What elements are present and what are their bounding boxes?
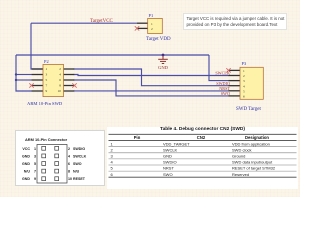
connector P3 left pin stubs: [229, 70, 241, 96]
svg-text:GND: GND: [158, 65, 169, 70]
svg-text:Designation: Designation: [245, 135, 269, 140]
svg-text:VCC: VCC: [22, 147, 30, 151]
svg-text:Ground: Ground: [232, 154, 245, 159]
svg-text:RESET of target STM32: RESET of target STM32: [232, 166, 276, 171]
svg-text:10: 10: [68, 177, 72, 181]
svg-text:Reserved: Reserved: [232, 172, 249, 177]
wire SWO from P2 pin6 to P3 pin6: [74, 80, 230, 96]
wire GND left vertical: [16, 55, 32, 91]
svg-text:4: 4: [111, 160, 114, 165]
svg-text:Target VDD: Target VDD: [146, 37, 171, 42]
svg-text:9: 9: [46, 89, 48, 93]
P3 pin numbers: [243, 69, 245, 99]
svg-text:NRST: NRST: [163, 166, 174, 171]
CN2 column values: [163, 141, 190, 177]
svg-text:N/U: N/U: [73, 170, 80, 174]
left pin labels: [22, 147, 36, 181]
svg-text:SWD Target: SWD Target: [236, 107, 261, 112]
svg-text:2: 2: [59, 67, 61, 71]
background grid: [0, 0, 300, 197]
svg-text:Pin: Pin: [134, 135, 141, 140]
svg-text:2: 2: [151, 27, 153, 31]
connector P2 body: [43, 64, 64, 96]
svg-text:1: 1: [151, 22, 153, 26]
svg-text:SWO: SWO: [163, 172, 173, 177]
svg-text:2: 2: [243, 74, 245, 78]
note text box: [183, 13, 287, 30]
svg-text:8: 8: [68, 170, 70, 174]
svg-text:1: 1: [111, 141, 114, 146]
svg-text:6: 6: [243, 95, 245, 99]
wire GND branch to P2 pin5: [16, 79, 32, 81]
svg-text:8: 8: [59, 84, 61, 88]
designation column values: [232, 141, 276, 177]
svg-text:P1: P1: [149, 13, 154, 18]
no-connect X on P2 pin7: [29, 83, 33, 87]
svg-text:GND: GND: [22, 154, 30, 158]
wire GND horizontal: [16, 54, 209, 56]
P2 pin numbers right column: [58, 67, 62, 93]
svg-text:N/U: N/U: [24, 170, 31, 174]
svg-text:P2: P2: [44, 59, 49, 64]
svg-text:VDD from application: VDD from application: [232, 141, 270, 146]
svg-text:SWCLK: SWCLK: [215, 71, 230, 76]
svg-text:SWDIO: SWDIO: [163, 160, 177, 165]
svg-text:10: 10: [58, 89, 62, 93]
svg-text:3: 3: [243, 79, 245, 83]
wire SWDIO from P2 pin2 to P3 pin4: [74, 69, 230, 86]
svg-text:4: 4: [243, 84, 245, 88]
table rules: [109, 134, 297, 177]
svg-text:3: 3: [111, 154, 114, 159]
no-connect X on P2 pin8: [72, 83, 76, 87]
junction at GND branch pin3: [15, 73, 17, 75]
right pin labels: [68, 147, 87, 181]
svg-text:SWO: SWO: [73, 162, 82, 166]
connector P2 left pin stubs: [32, 69, 43, 91]
connector outline: [37, 145, 67, 184]
svg-text:5: 5: [243, 89, 245, 93]
wire GND branch to P2 pin3: [16, 74, 32, 76]
svg-text:9: 9: [34, 177, 36, 181]
svg-text:CN2: CN2: [197, 135, 206, 140]
connector P3 body: [240, 67, 263, 99]
svg-text:7: 7: [34, 170, 36, 174]
pin squares right column: [55, 146, 59, 180]
svg-text:P3: P3: [242, 61, 247, 66]
wire NRST from P2 pin10 to P3 pin5: [74, 90, 230, 92]
svg-text:5: 5: [34, 162, 36, 166]
svg-text:1: 1: [34, 147, 36, 151]
svg-text:GND: GND: [22, 177, 30, 181]
connector P1 pin stubs: [137, 23, 148, 28]
svg-text:5: 5: [46, 78, 48, 82]
svg-text:SWD data input/output: SWD data input/output: [232, 160, 273, 165]
svg-text:6: 6: [59, 78, 61, 82]
svg-text:3: 3: [34, 154, 36, 158]
svg-text:5: 5: [111, 166, 114, 171]
schematic drawing: [0, 0, 300, 197]
wire GND right vertical to P3 pin3: [209, 55, 229, 81]
junction at GND branch pin5: [15, 79, 17, 81]
svg-text:SWCLK: SWCLK: [73, 154, 87, 158]
wire SWCLK from P2 pin4 to P3 pin2: [74, 75, 230, 76]
connector P1 body: [148, 18, 163, 33]
svg-text:7: 7: [46, 84, 48, 88]
pin squares left column: [42, 146, 46, 180]
svg-text:ARM 10-Pin SWD: ARM 10-Pin SWD: [27, 101, 63, 106]
svg-text:RESET: RESET: [73, 177, 86, 181]
svg-text:SWD clock: SWD clock: [232, 147, 252, 152]
svg-text:VDD_TARGET: VDD_TARGET: [163, 141, 190, 146]
svg-text:1: 1: [243, 69, 245, 73]
ARM 10-pin connector card: [15, 130, 105, 186]
svg-text:SWO: SWO: [221, 91, 230, 96]
svg-text:SWCLK: SWCLK: [163, 147, 178, 152]
pin column values: [111, 141, 114, 177]
svg-text:SWDIO: SWDIO: [73, 147, 85, 151]
svg-text:6: 6: [111, 172, 114, 177]
wire TargetVCC vertical to P2 pin1: [31, 23, 43, 69]
card title: [25, 137, 67, 142]
svg-text:2: 2: [111, 147, 114, 152]
svg-text:4: 4: [68, 154, 70, 158]
svg-text:2: 2: [68, 147, 70, 151]
junction at GND symbol: [162, 54, 165, 57]
no-connect X on P1 pin2: [135, 26, 139, 30]
connector P2 right pin stubs: [64, 69, 75, 91]
ground symbol: [158, 55, 168, 64]
no-connect X on P3 pin1: [226, 68, 230, 72]
svg-text:6: 6: [68, 162, 70, 166]
P2 pin numbers left column: [46, 67, 48, 93]
svg-text:3: 3: [46, 73, 48, 77]
svg-text:GND: GND: [163, 154, 172, 159]
svg-text:1: 1: [46, 67, 48, 71]
svg-text:GND: GND: [22, 162, 30, 166]
debug connector table: [107, 127, 298, 189]
table title: [108, 127, 297, 132]
wire TargetVCC horizontal: [31, 22, 137, 24]
svg-text:4: 4: [59, 73, 61, 77]
